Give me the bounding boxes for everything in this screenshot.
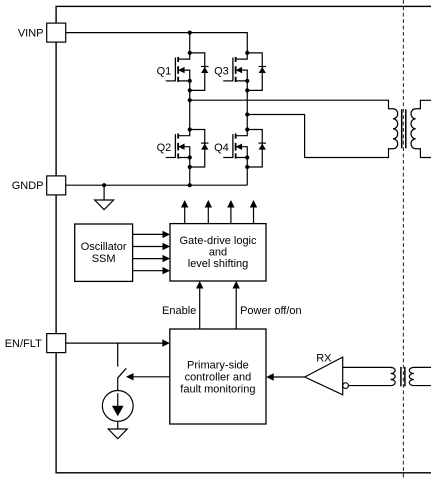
wire oscillator to gate-drive arrow 4 (133, 267, 170, 274)
node Q2 source rail junction (188, 183, 192, 187)
transistor Q1 (166, 51, 209, 93)
gate-drive output arrow 2 (205, 200, 212, 224)
wire Q4 diode join to bottom rail corner (246, 167, 248, 185)
wire switch branch down from EN/FLT wire (117, 343, 119, 367)
svg-text:Q1: Q1 (157, 65, 172, 77)
wire RX output to controller (266, 373, 305, 380)
wire controller to switch control arrow (126, 373, 170, 380)
wire Q1 drain to top rail (189, 33, 191, 53)
gate-drive output arrow 1 (181, 200, 188, 224)
svg-text:GNDP: GNDP (12, 180, 44, 192)
svg-text:controller and: controller and (185, 371, 252, 383)
wire Q2 diode join to bottom rail (189, 167, 191, 185)
receiver RX (305, 357, 349, 395)
wire Q3 diode join down to Q4 drain (crosses mid rail) (246, 90, 248, 129)
svg-text:Enable: Enable (162, 305, 196, 317)
wire GNDP bottom rail (66, 184, 248, 186)
wire RX top input to transformer T2 primary winding (343, 367, 396, 385)
wire EN/FLT to controller (66, 339, 170, 346)
svg-text:fault monitoring: fault monitoring (180, 383, 255, 395)
svg-text:and: and (209, 247, 227, 259)
gate-drive logic block (170, 224, 266, 281)
svg-text:Primary-side: Primary-side (187, 359, 249, 371)
svg-text:VINP: VINP (18, 27, 44, 39)
transformer T1 core (402, 109, 406, 148)
pin GNDP (47, 176, 66, 195)
wire switch to current source (117, 378, 119, 390)
svg-text:Power off/on: Power off/on (240, 305, 302, 317)
current source I1 (102, 391, 133, 422)
node Q3/Q4 midpoint tap (245, 112, 249, 116)
switch blade (117, 368, 126, 378)
node top rail / Q1 drain tap (188, 30, 192, 34)
gate-drive output arrow 3 (227, 200, 234, 224)
node mid rail (Q1/Q2 midpoint) (188, 98, 192, 102)
svg-text:SSM: SSM (92, 253, 116, 265)
wire Enable into gate-drive (196, 281, 203, 329)
pin EN/FLT (47, 334, 66, 353)
transformer T2 core (401, 367, 405, 387)
wire ground tap down (103, 185, 105, 200)
transistor Q3 (223, 51, 266, 93)
gate-drive output arrow 4 (250, 200, 257, 224)
wire Q1 diode join to mid rail node (189, 90, 191, 100)
wire oscillator to gate-drive arrow 2 (133, 243, 170, 250)
ground (95, 200, 114, 210)
transistor Q4 (223, 127, 266, 169)
wire current source to ground (117, 421, 119, 429)
svg-text:Q4: Q4 (214, 142, 229, 154)
wire mid rail to transformer primary and return to Q3/Q4 tap (190, 100, 398, 157)
wire VINP top rail (66, 33, 248, 53)
wire oscillator to gate-drive arrow 1 (133, 231, 170, 238)
svg-text:RX: RX (316, 352, 332, 364)
ground (108, 429, 127, 439)
transformer T1 secondary winding (411, 100, 431, 157)
wire oscillator to gate-drive arrow 3 (133, 255, 170, 262)
svg-text:level shifting: level shifting (188, 258, 249, 270)
wire mid rail node to Q2 drain (189, 100, 191, 129)
wire Power off/on into gate-drive (233, 281, 240, 329)
svg-text:Gate-drive logic: Gate-drive logic (179, 235, 257, 247)
svg-text:Q3: Q3 (214, 65, 229, 77)
transformer T2 secondary winding (409, 367, 431, 385)
svg-text:Q2: Q2 (157, 142, 172, 154)
svg-text:Oscillator: Oscillator (81, 241, 127, 253)
oscillator block U1 (75, 224, 133, 281)
isolation barrier dashed line (402, 0, 404, 480)
primary-side controller block (170, 329, 266, 424)
pin VINP (47, 23, 66, 42)
node ground tap on GNDP rail (102, 183, 106, 187)
svg-text:EN/FLT: EN/FLT (5, 338, 42, 350)
transistor Q2 (166, 127, 209, 169)
